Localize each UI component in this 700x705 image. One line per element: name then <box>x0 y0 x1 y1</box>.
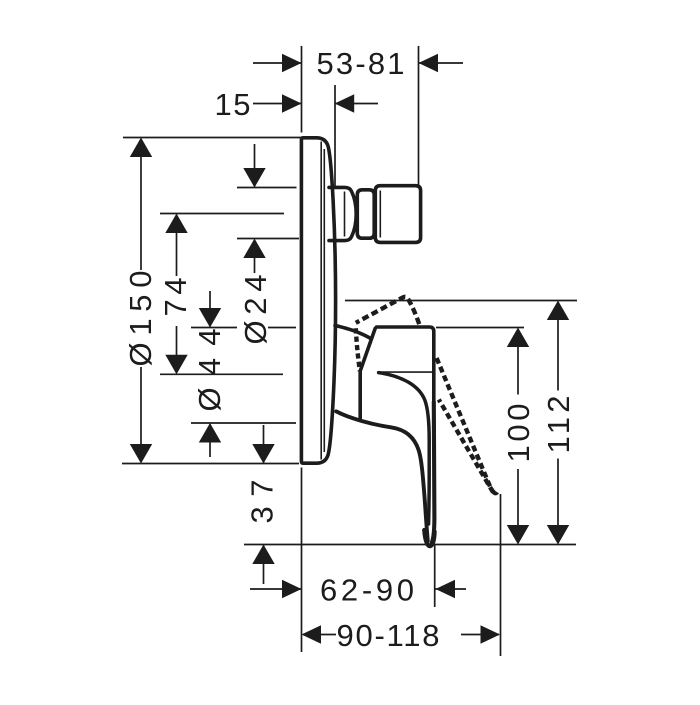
svg-text:74: 74 <box>158 278 193 317</box>
svg-text:90-118: 90-118 <box>337 618 440 653</box>
svg-text:15: 15 <box>215 87 251 122</box>
svg-text:Ø150: Ø150 <box>123 271 158 367</box>
svg-text:100: 100 <box>501 404 536 463</box>
svg-text:53-81: 53-81 <box>317 46 405 81</box>
svg-text:Ø24: Ø24 <box>238 275 273 345</box>
svg-text:37: 37 <box>245 480 280 524</box>
svg-text:62-90: 62-90 <box>320 573 414 608</box>
svg-text:112: 112 <box>541 396 576 454</box>
svg-text:Ø44: Ø44 <box>192 329 227 412</box>
